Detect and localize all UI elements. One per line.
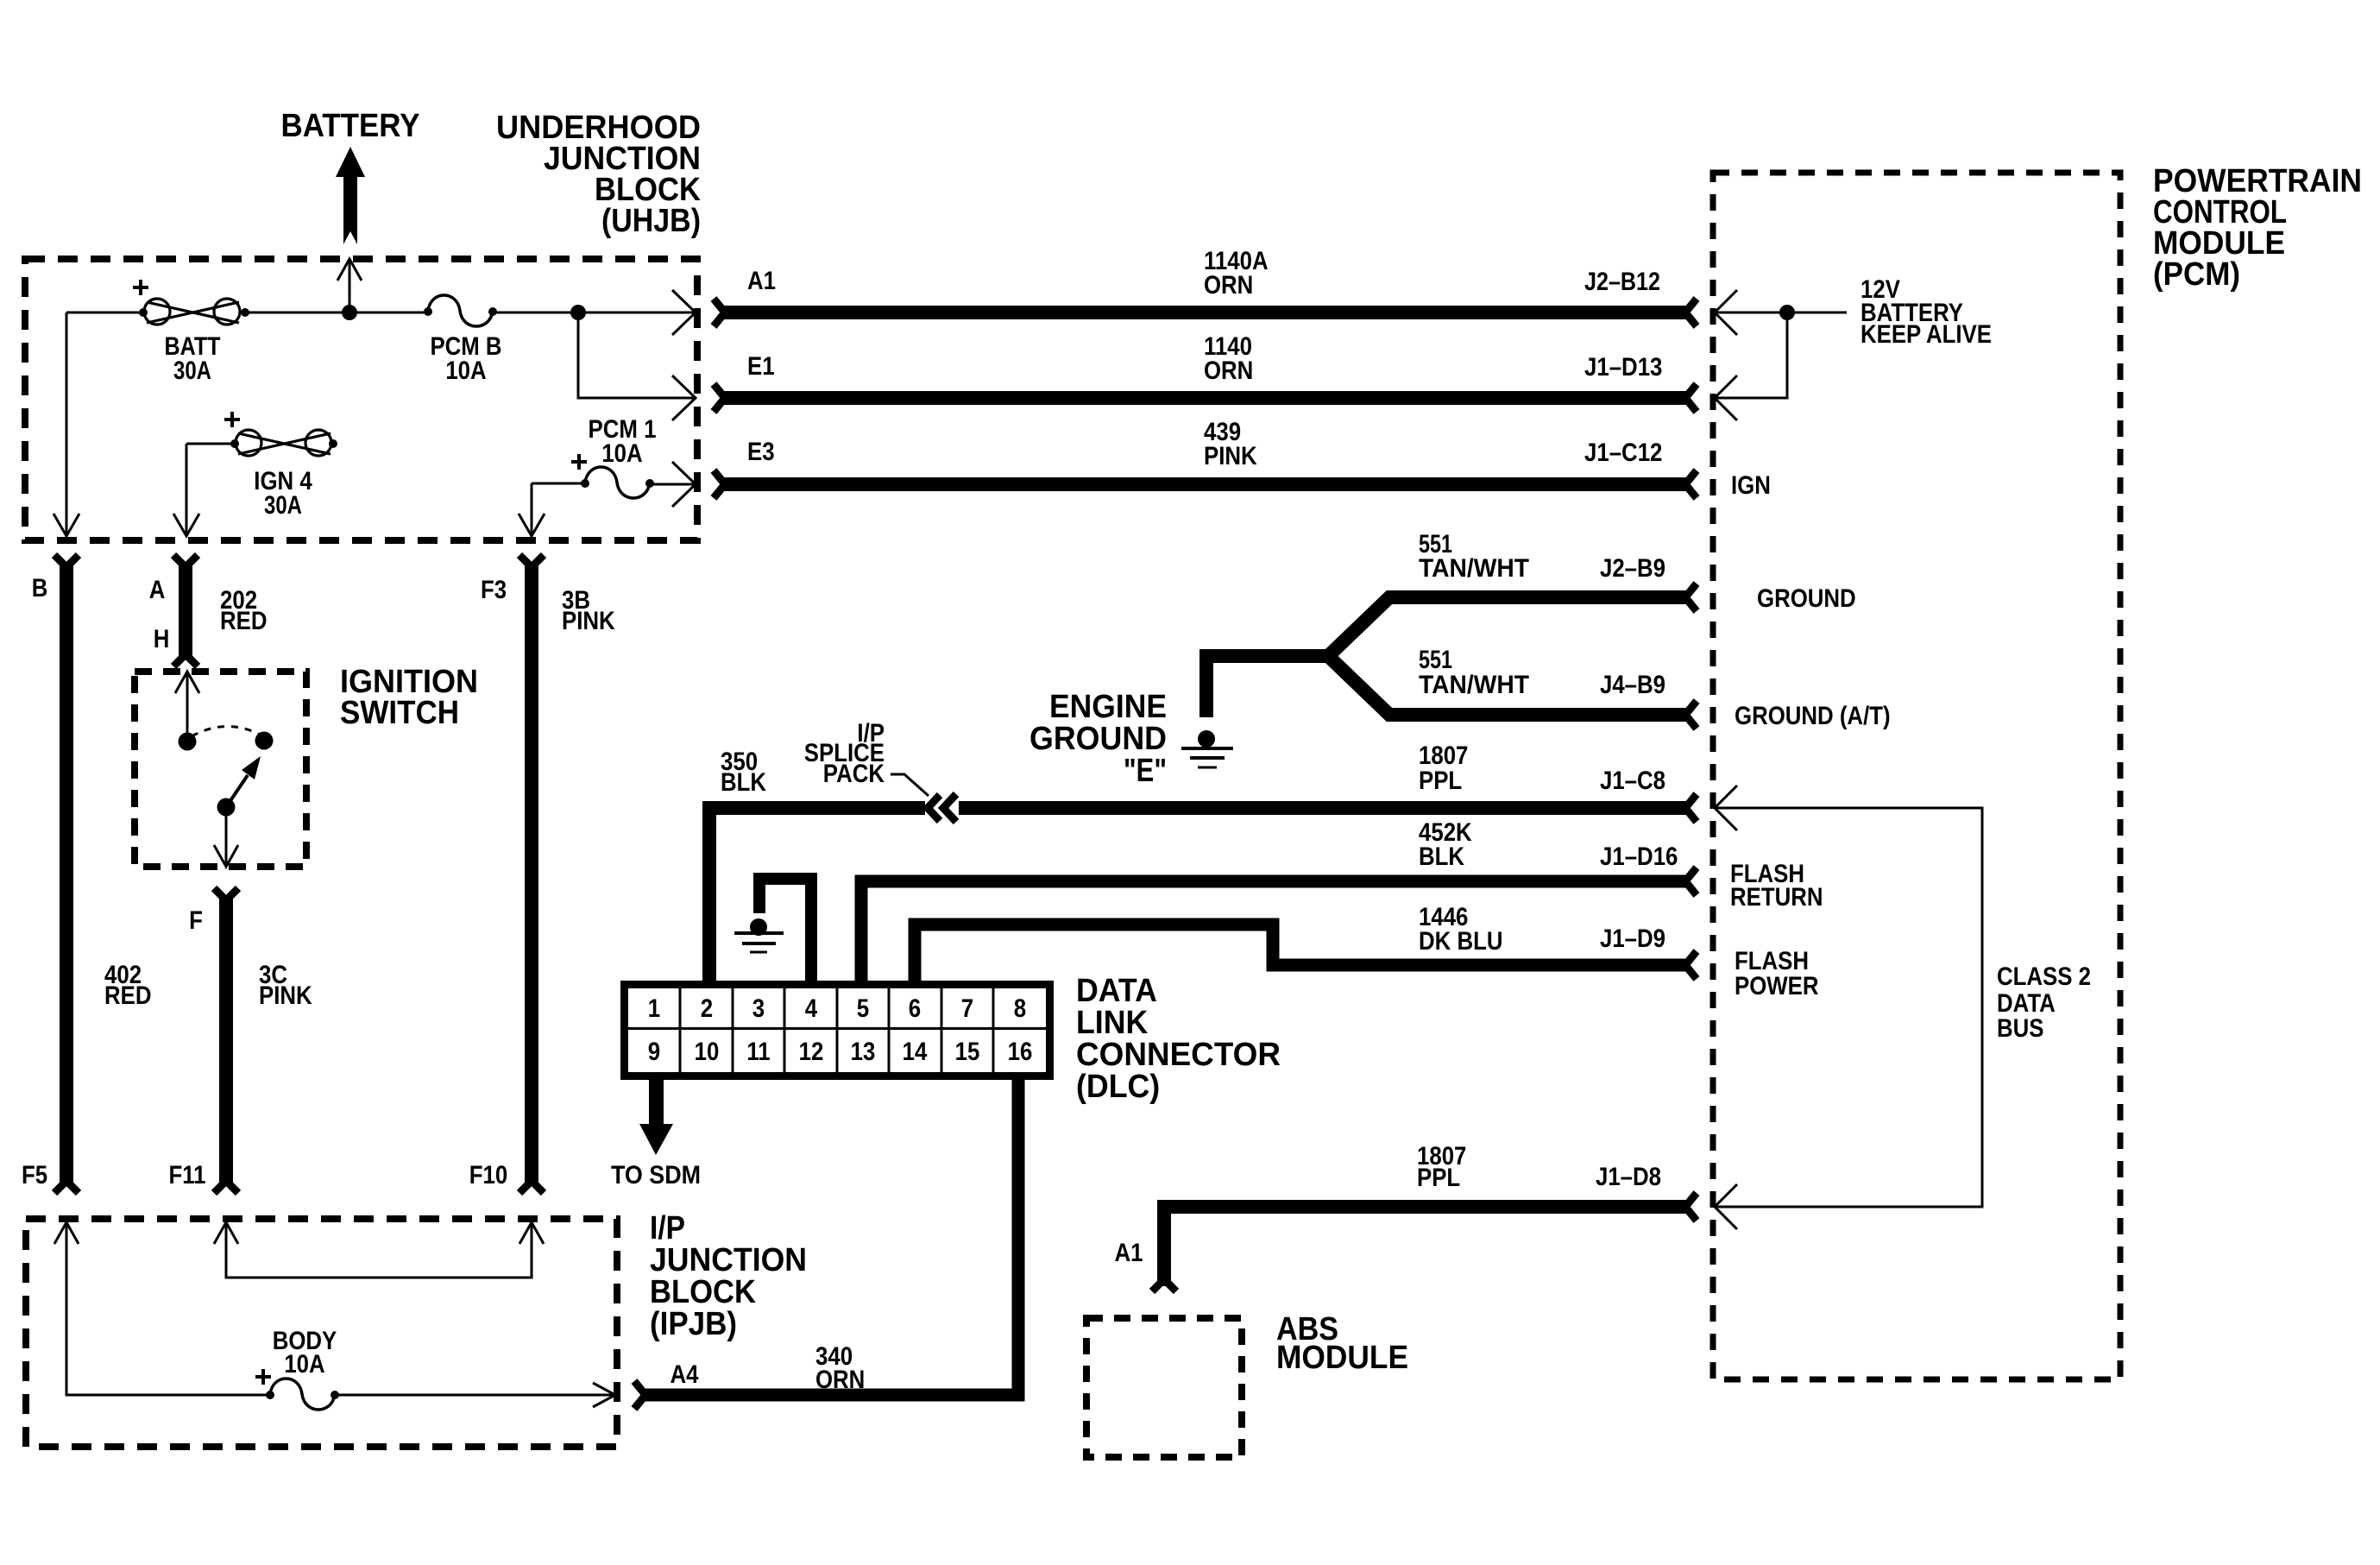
svg-text:11: 11 — [746, 1038, 770, 1066]
ground DLC signal ground (pin 4) — [734, 879, 811, 984]
terminal arrow E1 — [672, 375, 696, 420]
label BODY 10A — [273, 1327, 337, 1379]
label 12V BATTERY KEEP ALIVE — [1861, 275, 1992, 349]
svg-text:J1–D13: J1–D13 — [1584, 353, 1662, 382]
switch throw dashed arc — [192, 726, 260, 736]
svg-text:PPL: PPL — [1417, 1164, 1460, 1192]
svg-text:BLK: BLK — [721, 768, 766, 797]
label 1807 PPL (lower) — [1417, 1142, 1466, 1192]
label FLASH RETURN — [1730, 860, 1823, 912]
svg-text:(UHJB): (UHJB) — [601, 203, 701, 239]
node switch common — [217, 798, 236, 817]
svg-text:CONNECTOR: CONNECTOR — [1076, 1037, 1281, 1073]
svg-text:BLK: BLK — [1419, 842, 1464, 871]
PCM entry arrow J1-C8 — [1715, 786, 1737, 830]
svg-text:A1: A1 — [747, 267, 776, 295]
svg-text:J1–D8: J1–D8 — [1596, 1163, 1661, 1191]
wire B 402 RED — [54, 555, 79, 1193]
label ENGINE GROUND E — [1029, 689, 1167, 789]
label BATT 30A — [165, 332, 221, 385]
svg-text:9: 9 — [648, 1038, 660, 1066]
svg-text:BLOCK: BLOCK — [650, 1274, 756, 1310]
svg-text:GROUND (A/T): GROUND (A/T) — [1735, 702, 1891, 730]
svg-text:5: 5 — [857, 994, 869, 1023]
svg-text:14: 14 — [903, 1038, 928, 1066]
svg-text:F10: F10 — [469, 1161, 508, 1190]
svg-text:BUS: BUS — [1997, 1014, 2044, 1043]
svg-text:30A: 30A — [264, 491, 302, 520]
label 3B PINK — [562, 586, 615, 635]
svg-text:4: 4 — [805, 994, 818, 1023]
label PCM B 10A — [430, 332, 501, 385]
svg-text:J1–C12: J1–C12 — [1584, 439, 1662, 467]
svg-text:GROUND: GROUND — [1757, 584, 1856, 613]
svg-text:B: B — [32, 574, 48, 603]
svg-text:2: 2 — [701, 994, 713, 1023]
svg-text:MODULE: MODULE — [1276, 1340, 1408, 1376]
node switch contact left — [179, 733, 197, 751]
svg-text:30A: 30A — [173, 357, 211, 385]
label 350 BLK — [721, 748, 766, 797]
svg-text:A: A — [149, 576, 166, 604]
svg-text:10A: 10A — [445, 357, 486, 385]
svg-text:CLASS 2: CLASS 2 — [1997, 962, 2091, 991]
label BATTERY — [281, 108, 420, 144]
svg-text:(PCM): (PCM) — [2153, 256, 2240, 293]
svg-text:ENGINE: ENGINE — [1049, 689, 1167, 725]
svg-text:PINK: PINK — [1204, 442, 1257, 470]
label 1140 ORN — [1204, 332, 1253, 385]
wire 1140 ORN E1 to PCM J1-D13 — [714, 384, 1697, 412]
svg-text:TO SDM: TO SDM — [611, 1161, 701, 1190]
label I/P SPLICE PACK with leader — [804, 719, 929, 796]
svg-text:GROUND: GROUND — [1029, 721, 1167, 757]
label I/P JUNCTION BLOCK (IPJB) — [650, 1210, 807, 1342]
svg-text:10A: 10A — [284, 1350, 324, 1379]
terminal arrow A1 — [672, 290, 696, 335]
PCM entry arrow J1-D13 — [1715, 375, 1737, 420]
wire 452K BLK DLC pin 5 to PCM J1-D16 FLASH RETURN — [861, 868, 1697, 984]
svg-text:"E": "E" — [1124, 753, 1167, 789]
wire F11 to F10 link inside IPJB — [226, 1224, 532, 1278]
svg-text:8: 8 — [1014, 994, 1026, 1023]
svg-text:A1: A1 — [1115, 1239, 1143, 1267]
fuse BODY 10A — [255, 1369, 339, 1410]
fuse PCM 1 10A — [571, 454, 654, 498]
class 2 data bus internal loop — [1716, 808, 1982, 1207]
TO SDM arrow (solid) — [639, 1078, 673, 1155]
wire F 3C PINK — [214, 888, 238, 1193]
wire IGN 4 fuse to A terminal — [173, 444, 235, 536]
wire 551 TAN/WHT to J2-B9 GROUND — [1206, 584, 1697, 717]
PCM entry arrow J2-B12 — [1715, 290, 1737, 335]
svg-text:DK BLU: DK BLU — [1419, 927, 1503, 956]
svg-text:J1–D9: J1–D9 — [1600, 924, 1665, 953]
svg-text:SWITCH: SWITCH — [340, 695, 459, 731]
fuse BATT 30A (circuit breaker) — [133, 280, 249, 325]
svg-text:RED: RED — [104, 981, 152, 1010]
svg-text:7: 7 — [961, 994, 973, 1023]
wire 439 PINK E3 to PCM J1-C12 — [714, 470, 1697, 498]
node battery junction — [342, 305, 357, 320]
switch output wire with arrow — [214, 807, 238, 867]
fuse PCM B 10A — [424, 295, 497, 326]
label 1807 PPL (upper) — [1419, 741, 1468, 795]
wire 350 BLK splice to DLC pin 2 — [709, 808, 925, 984]
label POWERTRAIN CONTROL MODULE (PCM) — [2153, 163, 2362, 293]
svg-text:J1–D16: J1–D16 — [1600, 842, 1678, 871]
wire 1446 DK BLU DLC pin 6 to PCM J1-D9 FLASH POWER — [915, 924, 1697, 984]
svg-text:F3: F3 — [481, 576, 507, 604]
svg-text:J4–B9: J4–B9 — [1600, 671, 1665, 699]
underhood junction block UHJB box — [25, 259, 697, 540]
svg-text:10: 10 — [695, 1038, 720, 1066]
svg-text:ORN: ORN — [1204, 357, 1253, 385]
svg-text:F11: F11 — [169, 1161, 206, 1190]
wire 551 TAN/WHT branch to J4-B9 GROUND (A/T) — [1325, 653, 1697, 729]
ground engine ground E — [1181, 730, 1233, 767]
svg-text:LINK: LINK — [1076, 1005, 1149, 1041]
svg-text:A4: A4 — [671, 1360, 699, 1389]
svg-text:E3: E3 — [747, 438, 775, 466]
wire F3 3B PINK — [519, 555, 544, 1193]
svg-text:DATA: DATA — [1076, 973, 1157, 1009]
label 1446 DK BLU — [1419, 903, 1503, 956]
wire BODY fuse to A4 terminal — [335, 1383, 615, 1407]
label 551 TAN/WHT (upper) — [1419, 530, 1529, 583]
svg-text:H: H — [154, 625, 170, 653]
label 1140A ORN — [1204, 247, 1269, 300]
label 202 RED — [220, 586, 268, 635]
IPJB entry arrow F10 — [519, 1222, 544, 1244]
svg-text:F: F — [189, 906, 203, 935]
svg-text:PACK: PACK — [823, 760, 885, 788]
wire 12V junction to J1-D13 — [1716, 312, 1787, 398]
data link connector DLC box — [625, 985, 1051, 1077]
svg-text:12: 12 — [799, 1038, 824, 1066]
label 340 ORN — [815, 1342, 865, 1394]
node switch contact right — [255, 732, 274, 750]
ignition switch box — [135, 672, 306, 867]
svg-text:J2–B12: J2–B12 — [1584, 268, 1660, 296]
fuse IGN 4 30A (circuit breaker) — [224, 412, 337, 456]
svg-text:PINK: PINK — [562, 607, 615, 635]
label 3C PINK — [259, 961, 312, 1010]
wire PCM 1 fuse to F3 terminal — [519, 483, 585, 536]
svg-text:(IPJB): (IPJB) — [650, 1306, 737, 1342]
wire 340 ORN A4 to DLC pin 16 — [634, 1078, 1018, 1409]
wire battery arrow to junction — [337, 259, 362, 312]
label IGN 4 30A — [254, 467, 312, 520]
svg-text:E1: E1 — [747, 352, 775, 381]
svg-text:RETURN: RETURN — [1730, 883, 1823, 912]
svg-text:TAN/WHT: TAN/WHT — [1419, 554, 1529, 583]
svg-text:POWER: POWER — [1735, 972, 1819, 1000]
IPJB entry arrow F5 — [54, 1222, 79, 1244]
svg-text:13: 13 — [851, 1038, 876, 1066]
DLC pin numbers row 2 — [648, 1038, 1033, 1066]
wire 1807 PPL splice to PCM J1-C8 — [959, 794, 1697, 822]
svg-text:TAN/WHT: TAN/WHT — [1419, 671, 1529, 699]
wire BATT fuse to PCM B fuse — [245, 312, 428, 314]
wire A 202 RED to ignition switch — [173, 555, 198, 666]
label 452K BLK — [1419, 818, 1472, 871]
DLC pin numbers row 1 — [648, 994, 1026, 1023]
label DATA LINK CONNECTOR (DLC) — [1076, 973, 1281, 1105]
svg-text:JUNCTION: JUNCTION — [650, 1242, 807, 1278]
svg-text:6: 6 — [909, 994, 921, 1023]
wire 1807 PPL ABS A1 to PCM J1-D8 — [1152, 1193, 1697, 1291]
wire F5 to BODY fuse — [66, 1224, 270, 1395]
svg-text:IGN: IGN — [1731, 471, 1771, 500]
svg-text:1: 1 — [648, 994, 660, 1023]
svg-text:16: 16 — [1008, 1038, 1033, 1066]
wire PCM 1 fuse to E3 terminal — [650, 483, 694, 486]
svg-text:I/P: I/P — [650, 1210, 685, 1246]
svg-text:KEEP ALIVE: KEEP ALIVE — [1861, 320, 1992, 349]
I/P junction block IPJB box — [26, 1219, 617, 1447]
powertrain control module PCM box — [1713, 173, 2120, 1379]
svg-text:(DLC): (DLC) — [1076, 1069, 1160, 1105]
terminal arrow E3 — [672, 462, 696, 507]
node A1/E1 junction — [570, 305, 586, 320]
svg-text:RED: RED — [220, 607, 268, 635]
svg-text:PINK: PINK — [259, 981, 312, 1010]
label CLASS 2 DATA BUS — [1997, 962, 2091, 1043]
svg-text:10A: 10A — [601, 439, 642, 468]
label IGNITION SWITCH — [340, 664, 478, 731]
wire junction down to E1 terminal — [578, 312, 694, 398]
svg-text:F5: F5 — [22, 1161, 47, 1190]
IPJB entry arrow F11 — [214, 1222, 238, 1244]
label 439 PINK — [1204, 418, 1257, 470]
switch blade with arrowhead — [226, 756, 261, 807]
label ABS MODULE — [1276, 1311, 1408, 1376]
svg-text:15: 15 — [955, 1038, 980, 1066]
label 402 RED — [104, 961, 152, 1010]
label PCM 1 10A — [589, 415, 657, 468]
node 12V junction — [1779, 305, 1795, 320]
battery feed arrow (thick, to BATTERY) — [336, 147, 365, 244]
svg-text:BATTERY: BATTERY — [281, 108, 420, 144]
PCM entry arrow J1-D8 — [1715, 1184, 1737, 1229]
wire 1140A ORN A1 to PCM J2-B12 — [714, 299, 1697, 326]
label FLASH POWER — [1735, 947, 1819, 1000]
svg-text:PPL: PPL — [1419, 767, 1462, 795]
svg-text:ORN: ORN — [1204, 271, 1253, 300]
svg-text:J2–B9: J2–B9 — [1600, 554, 1665, 583]
label UHJB header — [496, 110, 701, 239]
switch input wire with arrow — [175, 672, 199, 741]
ABS module box — [1086, 1318, 1242, 1457]
wire BATT fuse feed from B column — [54, 312, 139, 536]
svg-text:J1–C8: J1–C8 — [1600, 767, 1665, 795]
svg-text:3: 3 — [752, 994, 765, 1023]
svg-text:ORN: ORN — [815, 1366, 865, 1394]
splice pack I/P marker — [928, 794, 956, 822]
wire 12V keep alive internal — [1715, 312, 1847, 314]
label 551 TAN/WHT (lower) — [1419, 646, 1529, 699]
wire PCM B fuse to A1 terminal — [493, 312, 694, 314]
